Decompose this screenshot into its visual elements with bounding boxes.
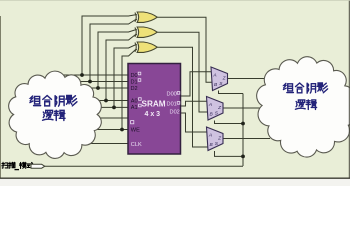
svg-text:D2: D2 (131, 86, 138, 92)
svg-text:D01: D01 (167, 102, 177, 108)
svg-text:D1: D1 (131, 80, 138, 86)
svg-text:A: A (208, 102, 212, 108)
svg-text:A0: A0 (131, 99, 138, 105)
svg-text:CLK: CLK (131, 142, 142, 148)
svg-text:A: A (208, 133, 212, 139)
svg-text:D0: D0 (131, 73, 138, 79)
svg-text:D00: D00 (167, 92, 177, 98)
svg-text:D02: D02 (170, 110, 180, 116)
svg-text:SRAM: SRAM (142, 100, 166, 109)
svg-text:A: A (212, 73, 216, 79)
svg-text:WE: WE (131, 128, 140, 134)
svg-text:A1: A1 (131, 105, 138, 111)
svg-text:4 x 3: 4 x 3 (145, 111, 161, 118)
